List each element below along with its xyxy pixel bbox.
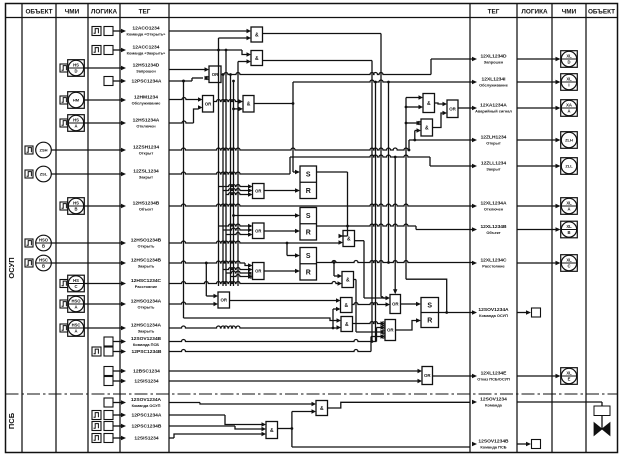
and gate A (251, 27, 263, 42)
svg-text:12HS1234B: 12HS1234B (133, 200, 160, 206)
input row 12HSO1234B Otkryt (25, 239, 33, 247)
svg-text:HSC: HSC (39, 258, 48, 263)
svg-text:ОБЪЕКТ: ОБЪЕКТ (25, 9, 52, 16)
input row 12SIS1234 (104, 377, 113, 386)
or gate OR1 (253, 184, 265, 199)
svg-text:12HSC1234C: 12HSC1234C (131, 278, 162, 284)
wire row11 branch to P2 (206, 295, 213, 297)
svg-text:HS: HS (73, 63, 79, 68)
svg-text:ЧМИ: ЧМИ (562, 9, 577, 16)
wire gateQ output (278, 428, 292, 430)
svg-text:Обслуживание: Обслуживание (132, 101, 162, 106)
wire orM in1 elbow (381, 296, 383, 298)
svg-text:D: D (74, 69, 77, 74)
sr latch SR1 (300, 166, 317, 199)
svg-text:HSC: HSC (72, 323, 81, 328)
svg-text:A: A (74, 329, 77, 334)
and gate B (251, 51, 263, 66)
svg-text:B: B (74, 207, 77, 212)
svg-text:XA: XA (566, 103, 572, 108)
input row 12PSC1234B psb (92, 422, 101, 431)
output row 12XA1234A Avarijnyj signal (472, 106, 477, 110)
svg-text:12ZLL1234: 12ZLL1234 (481, 160, 507, 166)
svg-text:OR: OR (449, 106, 456, 111)
wire gateK output to orM (352, 303, 386, 305)
wire gateH output to orJ (435, 103, 443, 104)
svg-text:Открыт: Открыт (486, 141, 501, 146)
svg-text:A: A (74, 305, 77, 310)
wire orJ output to XA1234A (458, 107, 472, 109)
wire P2 output to gateK (230, 300, 337, 302)
wire gateB in2 elbow (238, 61, 247, 63)
wire SR3 S input (287, 255, 296, 257)
svg-text:Команда ПСБ: Команда ПСБ (133, 342, 159, 347)
wire orD output (214, 100, 239, 102)
svg-text:ZSL: ZSL (40, 172, 48, 177)
vertical bus v183 (183, 81, 185, 318)
wire row5 to orD (169, 98, 198, 100)
and gate L (341, 317, 353, 332)
input row 12BSC1234 (104, 367, 113, 376)
svg-text:12BSC1234: 12BSC1234 (133, 369, 160, 375)
svg-text:HSO: HSO (71, 299, 81, 304)
svg-text:12SIS1234: 12SIS1234 (134, 436, 158, 442)
svg-text:12HSO1234A: 12HSO1234A (131, 298, 162, 304)
sr latch SR3 (300, 248, 317, 281)
and gate I (421, 119, 433, 136)
svg-text:&: & (425, 125, 429, 131)
wire gateI in2 elbow (415, 130, 417, 132)
and gate H (423, 94, 435, 113)
input row 12PSC1234A psb (92, 411, 101, 420)
wire row14 to gateL (169, 326, 337, 328)
svg-text:ОСУП: ОСУП (7, 257, 16, 278)
svg-text:ПСБ: ПСБ (7, 412, 16, 429)
svg-text:OR: OR (255, 269, 261, 274)
wire gateP output (328, 402, 471, 408)
wire row12 to gateG (169, 282, 338, 284)
input row 12HS1234D Zaproshen (60, 64, 68, 72)
svg-text:OR: OR (255, 228, 261, 233)
svg-text:C: C (74, 284, 77, 289)
wire row17 to orO (169, 370, 418, 372)
vertical bus v223 (222, 75, 224, 287)
wire v293 to SR1 S (293, 171, 296, 173)
svg-text:A: A (74, 124, 77, 129)
vertical bus v233 (233, 81, 235, 286)
vertical bus v218 (218, 38, 220, 286)
wires bus to OR2 (219, 224, 249, 226)
svg-text:R: R (306, 269, 311, 276)
svg-text:12HSC1234B: 12HSC1234B (131, 257, 162, 263)
wire SR2 output to XL1234B (317, 224, 417, 226)
svg-text:12PSC1234A: 12PSC1234A (132, 413, 162, 419)
wire orO output to XL1234E (433, 375, 473, 377)
svg-text:E: E (568, 377, 571, 382)
svg-text:12XL1234C: 12XL1234C (480, 257, 507, 263)
vertical bus v238 (237, 62, 239, 287)
valve actuator and body (594, 406, 610, 416)
input row 12HS1234A Otklyuchen (60, 119, 68, 127)
svg-text:&: & (255, 32, 259, 38)
vertical bus v381 (380, 34, 382, 297)
or gate N (385, 320, 396, 341)
and gate F (343, 231, 355, 247)
svg-text:S: S (306, 253, 311, 260)
svg-text:12HSC1234A: 12HSC1234A (131, 322, 162, 328)
or gate P2 (218, 292, 230, 308)
wire gateE output (254, 103, 293, 105)
svg-text:Открыть: Открыть (138, 305, 155, 310)
svg-text:12ACC1234: 12ACC1234 (133, 44, 160, 50)
wire row13 to P2 (169, 302, 214, 304)
wire orN output to SR4 R (396, 321, 417, 331)
svg-text:Закрыт: Закрыт (139, 175, 153, 180)
output row 12XL1234C Rasstoyanie (472, 261, 477, 265)
wire gateE in2 elbow (234, 108, 239, 110)
wire row3 to orC (169, 69, 205, 71)
input row 12PSC1234A (104, 77, 113, 86)
svg-text:Открыть: Открыть (138, 244, 155, 249)
vertical riser v206 (205, 263, 207, 296)
wire OR2 to SR2 R (264, 230, 296, 232)
svg-text:&: & (346, 277, 350, 283)
output row 12XL1234D Zaproshen (472, 57, 477, 61)
svg-text:XL: XL (566, 224, 572, 229)
svg-text:ZSH: ZSH (40, 148, 48, 153)
input row 12ACC1234 Komanda Zakryt (92, 46, 101, 55)
or gate J (447, 100, 458, 118)
wire orC output to XL1234D (221, 73, 431, 75)
svg-text:R: R (306, 188, 311, 195)
svg-text:12HS1234A: 12HS1234A (133, 117, 160, 123)
svg-text:OR: OR (387, 328, 394, 333)
svg-text:HSO: HSO (39, 238, 49, 243)
svg-text:12SIS1234: 12SIS1234 (134, 379, 158, 385)
svg-text:12ZLH1234: 12ZLH1234 (481, 134, 507, 140)
svg-text:OR: OR (392, 302, 399, 307)
svg-text:S: S (306, 213, 311, 220)
input row 12ZSL1234 Zakryt (25, 170, 33, 178)
svg-text:XL: XL (566, 54, 572, 59)
vertical riser v193 row6 to orD (194, 109, 199, 123)
svg-text:R: R (427, 317, 432, 324)
wire row1 to gateA (169, 30, 247, 32)
svg-text:Аварийный сигнал: Аварийный сигнал (475, 109, 512, 114)
wire gateA output (263, 33, 382, 35)
svg-text:Отказ ПСБ/ОСУП: Отказ ПСБ/ОСУП (477, 377, 510, 382)
svg-text:ТЕГ: ТЕГ (488, 9, 500, 16)
wire SR4 output to SOV1234A (439, 312, 473, 314)
wire row7 ZSH (169, 148, 409, 150)
wire gateF output (355, 240, 365, 242)
svg-text:12HS1234D: 12HS1234D (133, 62, 160, 68)
wire row20 to gateQ (169, 414, 225, 416)
svg-text:12PSC1234B: 12PSC1234B (132, 424, 162, 430)
wire gateK in2 (333, 308, 336, 310)
svg-text:Открыт: Открыт (139, 151, 154, 156)
svg-text:Команда: Команда (485, 403, 503, 408)
svg-text:Объект: Объект (486, 230, 500, 235)
output row 12SOV1234A Komanda OSUP (472, 310, 477, 314)
svg-text:OR: OR (255, 189, 261, 194)
or gate O (422, 367, 433, 385)
svg-text:Отключен: Отключен (484, 207, 504, 212)
svg-text:Команда «Закрыть»: Команда «Закрыть» (127, 51, 166, 56)
svg-text:A: A (567, 207, 570, 212)
svg-text:D: D (567, 60, 570, 65)
wire gateG output (354, 279, 357, 281)
wire row10 to gateF (169, 241, 339, 243)
wire gateG in1 riser (333, 263, 335, 277)
wire OR3 to SR3 R (264, 270, 296, 272)
svg-text:HM: HM (73, 98, 80, 103)
svg-text:Отключен: Отключен (136, 124, 156, 129)
svg-text:12SOV1234A: 12SOV1234A (478, 307, 509, 313)
wire gateF in1 riser (347, 172, 349, 236)
input row 12HSO1234A Otkryt (60, 300, 68, 308)
svg-text:&: & (345, 322, 349, 328)
or gate D (203, 96, 214, 113)
input row 12SIS1234 psb (92, 434, 101, 443)
wire OR1 to SR1 R (264, 190, 296, 192)
svg-text:B: B (42, 264, 45, 269)
svg-text:Объект: Объект (139, 207, 153, 212)
output row 12ZLL1234 Zakryt (472, 164, 477, 168)
output row 12XL1234A Otklyuchen (472, 204, 477, 208)
svg-text:&: & (270, 428, 274, 434)
svg-text:XL: XL (566, 201, 572, 206)
svg-text:&: & (427, 101, 431, 107)
svg-text:S: S (427, 302, 432, 309)
svg-text:Обслуживание: Обслуживание (479, 83, 509, 88)
svg-text:Команда «Открыть»: Команда «Открыть» (127, 32, 166, 37)
svg-text:OR: OR (205, 101, 212, 106)
wires bus to OR1 (219, 185, 249, 187)
svg-text:12ACO1234: 12ACO1234 (132, 25, 159, 31)
svg-text:12XL1234B: 12XL1234B (480, 224, 507, 230)
wire SR1 output (317, 171, 348, 173)
wire row11 (169, 261, 245, 263)
wire SR3 output to XL1234C (317, 261, 473, 263)
svg-text:HS: HS (73, 118, 79, 123)
vertical bus v375 (375, 82, 377, 342)
svg-text:OR: OR (424, 373, 431, 378)
input row 12HSC1234C Rasstoyanie (60, 280, 68, 288)
or gate M (390, 295, 401, 314)
svg-text:I: I (568, 83, 569, 88)
wire row16 to orN (169, 350, 371, 352)
output row 12XL1234E Otkaz PSB/OSUP (472, 374, 477, 378)
svg-text:12PSC1234A: 12PSC1234A (132, 79, 162, 85)
svg-text:ЧМИ: ЧМИ (65, 9, 80, 16)
wire SR2 S input (234, 215, 296, 217)
wire row22 to gateQ (169, 437, 174, 439)
svg-text:R: R (306, 229, 311, 236)
svg-text:Запрошен: Запрошен (484, 60, 504, 65)
input row 12HSC1234A Zakryt (60, 324, 68, 332)
svg-text:Команда ОСУП: Команда ОСУП (132, 403, 161, 408)
wire ZLH elbow (408, 140, 410, 150)
svg-text:12SOV1234B: 12SOV1234B (131, 336, 162, 342)
svg-text:&: & (344, 303, 348, 309)
vertical bus v230 (230, 75, 232, 287)
and gate Q (266, 422, 278, 439)
output row 12SOV1234B Komanda PSB (472, 442, 477, 446)
input row 12HM1234 Obsluzhivanie (60, 96, 68, 104)
svg-text:B: B (567, 230, 570, 235)
svg-text:Закрыть: Закрыть (138, 329, 155, 334)
svg-text:12HM1234: 12HM1234 (134, 94, 158, 100)
vertical bus v395 (394, 157, 396, 292)
svg-text:A: A (567, 109, 570, 114)
section divider dash-dot line (6, 393, 618, 395)
vertical bus v293 (292, 82, 294, 172)
svg-text:ЛОГИКА: ЛОГИКА (521, 9, 548, 16)
wire gateH in1 (406, 97, 419, 99)
svg-text:Команда ОСУП: Команда ОСУП (479, 313, 508, 318)
svg-text:Расстояние: Расстояние (482, 264, 505, 269)
svg-text:ТЕГ: ТЕГ (139, 9, 151, 16)
vertical bus v372 (371, 61, 373, 342)
wire row9 to XL1234A (169, 204, 472, 206)
svg-text:12SOV1234B: 12SOV1234B (478, 438, 509, 444)
sr latch SR4 (421, 298, 439, 328)
vertical bus v388 (388, 82, 390, 263)
svg-text:12XL1234D: 12XL1234D (480, 53, 507, 59)
input row 12SOV1234A Komanda OSUP (104, 398, 113, 407)
or gate OR3 (253, 263, 265, 280)
wire orM output to SR4 S (401, 303, 417, 305)
wire feed XL1234I (293, 80, 472, 82)
svg-text:ZLL: ZLL (565, 164, 573, 169)
svg-text:12ZSL1234: 12ZSL1234 (133, 168, 159, 174)
input row 12ZSH1234 Otkryt (25, 146, 33, 154)
wire row8 ZSL (169, 172, 290, 174)
wire gateI in1 (406, 122, 417, 124)
svg-text:ЛОГИКА: ЛОГИКА (91, 9, 118, 16)
svg-text:OR: OR (220, 298, 227, 303)
wire row4 to orC bubble (169, 80, 192, 82)
sr latch SR2 (300, 208, 317, 241)
svg-text:B: B (42, 244, 45, 249)
wire gateP in2 riser (291, 412, 293, 448)
vertical bus v226 (225, 50, 227, 286)
and gate P (316, 401, 328, 416)
svg-text:XL: XL (566, 77, 572, 82)
wire row19 to gateP (169, 402, 200, 404)
svg-text:S: S (306, 172, 311, 179)
svg-text:Расстояние: Расстояние (135, 284, 158, 289)
svg-text:12XL1234A: 12XL1234A (480, 200, 507, 206)
svg-text:Запрошен: Запрошен (136, 69, 156, 74)
and gate E (243, 96, 254, 113)
wire gateI output to orJ (433, 113, 443, 128)
svg-text:Команда ПСБ: Команда ПСБ (480, 445, 506, 450)
wire gateH in2 (406, 106, 419, 108)
svg-text:XL: XL (566, 258, 572, 263)
wire gateL output to orN (353, 322, 381, 324)
input row 12SOV1234B Komanda PSB (104, 337, 113, 346)
svg-text:12XL1234E: 12XL1234E (481, 370, 508, 376)
wire gateB output (263, 60, 373, 62)
svg-text:&: & (247, 102, 251, 108)
or gate OR2 (253, 223, 265, 239)
output row 12ZLH1234 Otkryt (472, 138, 477, 142)
svg-text:12HSO1234B: 12HSO1234B (131, 237, 162, 243)
output row 12XL1234B Obyekt (472, 227, 477, 231)
input row 12ACO1234 Komanda Otkryt (92, 27, 101, 36)
svg-text:&: & (255, 56, 259, 62)
wire row2 trunk (169, 49, 242, 51)
svg-text:Закрыть: Закрыть (138, 264, 155, 269)
and gate G (342, 272, 354, 288)
wire gateA in2 elbow (219, 37, 247, 39)
svg-text:ОБЪЕКТ: ОБЪЕКТ (588, 9, 615, 16)
svg-text:12XA1234A: 12XA1234A (480, 102, 507, 108)
svg-text:C: C (567, 264, 570, 269)
vertical riser v414 (414, 131, 416, 141)
svg-text:HS: HS (73, 201, 79, 206)
input row 12PSC1234B (92, 347, 101, 356)
svg-text:12PSC1234B: 12PSC1234B (132, 349, 162, 355)
svg-text:Закрыт: Закрыт (486, 167, 500, 172)
wire row18 to orO (169, 380, 418, 382)
and gate K (341, 298, 353, 313)
wire row21 to gateQ (169, 425, 235, 427)
wire gateL in1 from v183 (184, 318, 337, 321)
output row 12SOV1234 Komanda to valve (472, 400, 477, 404)
svg-text:12SOV1234A: 12SOV1234A (131, 397, 162, 403)
wire row6 to orD (169, 121, 194, 123)
svg-text:12SOV1234: 12SOV1234 (480, 396, 507, 402)
svg-text:ZLH: ZLH (565, 138, 573, 143)
svg-text:XL: XL (566, 371, 572, 376)
svg-text:&: & (347, 236, 351, 242)
wires bus to OR3 (223, 268, 248, 270)
wire row15 to orN (169, 340, 377, 342)
svg-text:&: & (320, 406, 324, 412)
or gate C (209, 66, 221, 83)
svg-text:HS: HS (73, 278, 79, 283)
input row 12HSC1234B Zakryt (25, 259, 33, 267)
svg-text:12XL1234I: 12XL1234I (482, 76, 507, 82)
input row 12HS1234B Obyekt (60, 202, 68, 210)
vertical bus v406 feedback (405, 98, 407, 280)
svg-text:12ZSH1234: 12ZSH1234 (133, 144, 159, 150)
wire ZLL elbow (429, 157, 431, 166)
output row 12XL1234I Obsluzhivanie (472, 80, 477, 84)
